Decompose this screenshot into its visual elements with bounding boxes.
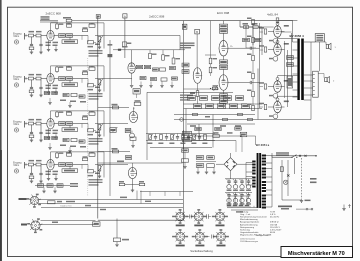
socket 2 wiring (41, 221, 101, 227)
svg-text:Leistung: Leistung (240, 211, 249, 214)
smoothing caps row 1 (225, 179, 252, 191)
mid triode V5a (129, 107, 137, 122)
mains double line (272, 156, 316, 158)
svg-text:Mikro: Mikro (14, 164, 20, 167)
wire B+ rail to node A (72, 20, 125, 22)
tremolo network below channel 4 (35, 183, 78, 193)
crease dashed vertical (87, 58, 89, 196)
svg-text:Sockelbeschaltung: Sockelbeschaltung (190, 249, 213, 253)
corner gnd symbols (342, 205, 350, 211)
tone control row elements (147, 134, 207, 145)
mid wire y163 (98, 162, 183, 164)
netz label (310, 178, 317, 183)
aux socket connector 1 (19, 194, 41, 208)
svg-text:Mikro: Mikro (14, 78, 20, 81)
earth bonding box (113, 219, 129, 247)
OT bottom return wire (304, 42, 311, 100)
EL84 plate buses (281, 32, 291, 107)
mid wire y107.5 (98, 107, 129, 109)
feedback wire from secondary (262, 100, 311, 120)
chassis enclosure rectangle (147, 92, 233, 160)
PT left connection wires (246, 163, 253, 186)
junction box on bus top (96, 15, 100, 19)
pot mid left (110, 127, 118, 133)
heater feed wires (227, 206, 258, 213)
svg-text:A: A (124, 14, 126, 18)
svg-text:Mischabstimmung: Mischabstimmung (240, 218, 258, 221)
output terminal box 1 (315, 34, 324, 42)
mid lower box (117, 156, 132, 162)
mix bus wire ch4 (104, 164, 128, 166)
mains voltage labels (276, 152, 289, 155)
choke and dropper left of bridge (196, 156, 216, 174)
splitter long wire y89 (184, 88, 220, 90)
mix bus wire ch1 to group2 (104, 36, 180, 50)
output pentode EL84 V7 (259, 39, 297, 61)
socket pinout diagram 2 (191, 209, 207, 226)
bridge rectifier GL1 (216, 153, 253, 179)
title block box (281, 247, 353, 258)
output terminal strip 2 (313, 71, 319, 97)
grid resistor network rows (187, 96, 249, 108)
drawing notes (240, 239, 258, 244)
mains earth dashed line (301, 158, 303, 200)
node square B (195, 29, 200, 34)
ground return rectangle (98, 219, 184, 221)
svg-text:Diode 2. frei: Diode 2. frei (61, 206, 72, 208)
phase splitter triode upper (219, 40, 233, 56)
triode stage + network channel 1 (46, 23, 105, 57)
specification text block (240, 211, 282, 238)
bus line x183 (183, 21, 185, 221)
triode stage + network channel 3 (46, 111, 105, 145)
driver cathode parts (190, 83, 199, 104)
eingang text block mid (180, 95, 193, 101)
PT primary windings (left) (252, 161, 255, 188)
svg-text:4xEL 84: 4xEL 84 (267, 12, 278, 16)
label 4xEL84 (267, 12, 278, 16)
bus line x98 (97, 16, 99, 219)
input connector channel 4 (13, 160, 47, 183)
mains switch (291, 155, 316, 158)
mid triode V5b (119, 163, 145, 192)
svg-text:Sicherung: Sicherung (240, 228, 251, 231)
splitter output resistor column (247, 18, 254, 111)
label ECC808 (phase splitter) (217, 11, 230, 15)
input connector channel 3 (13, 119, 47, 142)
channel 2 lower network (44, 92, 86, 108)
aux socket wiring (39, 191, 183, 211)
svg-text:Mikro: Mikro (14, 123, 20, 126)
bus line x125 (124, 21, 126, 58)
ps vertical drops (186, 27, 262, 148)
inter-socket marks (188, 214, 214, 238)
svg-text:11/60 Schrauben: 11/60 Schrauben (240, 239, 255, 241)
svg-text:ECC 808: ECC 808 (217, 11, 230, 15)
input connector channel 1 (13, 31, 47, 54)
socket pinout diagram 3 (212, 209, 228, 226)
tone control row rails (146, 134, 215, 148)
mix bus wire ch3 (104, 123, 128, 125)
svg-text:Tonregler stufe: Tonregler stufe (255, 234, 269, 237)
svg-text:41x10 Hz: 41x10 Hz (270, 217, 279, 219)
row below rails (195, 127, 241, 131)
socket pinout diagram 6 (213, 229, 229, 246)
svg-text:Netzspannung: Netzspannung (240, 226, 255, 229)
PT wires to mains (265, 156, 272, 158)
input connector channel 2 (13, 74, 47, 97)
scanner edge strip left (0, 0, 2, 261)
label 2xECC808 (group 2) (149, 14, 165, 18)
socket caption EL84 (278, 206, 292, 210)
mid cathode box (130, 137, 136, 147)
triode stage + network channel 4 (46, 152, 105, 186)
mix bus wire ch2 (104, 78, 132, 80)
B+ feed boxes left (183, 131, 192, 141)
heater verticals (227, 196, 249, 207)
EL84 grid bus (260, 23, 264, 108)
speaker 2 (318, 74, 335, 83)
node box C on bus (182, 24, 187, 29)
splitter mid stack (220, 56, 228, 75)
drive wire upper to grids (228, 47, 260, 50)
output pentode EL84 V6 (259, 21, 297, 43)
feedback network rails (174, 104, 262, 127)
box right of pot (125, 128, 131, 132)
small circle element mid (130, 131, 135, 138)
node A square (123, 14, 127, 21)
aux socket connector 2 (21, 218, 42, 233)
svg-text:Mikro: Mikro (14, 35, 20, 38)
svg-text:Ausgangsimpedanz: Ausgangsimpedanz (240, 221, 259, 224)
OT primary connection stubs (293, 25, 298, 97)
resistor column above driver (205, 21, 217, 76)
svg-text:0,5/1,25 A T: 0,5/1,25 A T (270, 228, 282, 231)
box on mid bus (122, 42, 131, 47)
socket grid caption (190, 249, 213, 253)
bus component boxes left (182, 63, 189, 73)
svg-text:BV 2051 a: BV 2051 a (256, 143, 270, 147)
second stage amp row 1 (2xECC808 group2) (108, 44, 186, 87)
becher capacitor below stage2 (133, 89, 140, 98)
OT B+ feed (292, 21, 294, 25)
label 2xECC808 (group 1) (46, 12, 62, 16)
svg-text:Mischverstärker M 70: Mischverstärker M 70 (288, 251, 345, 257)
PT secondary windings (right) (262, 155, 266, 209)
OT secondary taps (304, 42, 315, 95)
mid lower wire (98, 148, 130, 153)
svg-text:Aufnahmeleistung: Aufnahmeleistung (240, 223, 258, 226)
EL84 input feed wires (240, 18, 279, 48)
socket pinout diagram 1 (172, 209, 188, 226)
svg-text:2xECC 808: 2xECC 808 (46, 12, 62, 16)
output pentode EL84 V8 (259, 76, 297, 98)
channel 3 lower network (44, 137, 86, 153)
output transformer BV2052 core (297, 39, 303, 101)
drive wire lower to grids (228, 81, 260, 84)
heater run to preamps (140, 192, 193, 197)
HT rail top (125, 20, 293, 22)
plate resistor row top right (240, 21, 262, 34)
triode stage + network channel 2 (46, 66, 105, 100)
phase splitter triode lower (219, 75, 228, 91)
socket pinout diagram 4 (172, 229, 188, 246)
svg-text:160 VA: 160 VA (270, 223, 278, 226)
driver triode left (193, 68, 202, 84)
B+ dropper resistors top-left (40, 16, 72, 22)
bus line x110 (109, 40, 111, 196)
label BV2051 mains transformer (256, 143, 270, 147)
svg-text:11/65 Abmessungen: 11/65 Abmessungen (240, 240, 258, 243)
PT right connection wires (266, 153, 272, 207)
svg-text:Klirrabstimmung Instrument: Klirrabstimmung Instrument (240, 216, 267, 219)
mains transformer BV2051 core (257, 153, 262, 208)
output pentode EL84 V9 (259, 96, 297, 118)
socket pinout diagram 5 (192, 229, 208, 246)
coupling resistor mid (112, 104, 119, 109)
B+ feed wires to amp (192, 132, 256, 152)
svg-text:Gegentaktendstufe: Gegentaktendstufe (240, 231, 259, 234)
title text (288, 251, 345, 257)
svg-text:Geg. - Leit: Geg. - Leit (240, 213, 251, 216)
screen resistor boxes near OT (287, 56, 294, 88)
smoothing caps row 2 (225, 193, 252, 205)
label BV2052/4 output transformer (290, 34, 305, 38)
wire terminal1 to strip2 (319, 42, 321, 71)
splitter lower stack (220, 90, 228, 108)
splitter plate stack (220, 21, 228, 41)
plate resistor above mid triode (134, 100, 141, 109)
mains earth ground (300, 200, 311, 203)
input text block left (180, 43, 195, 49)
heater x marks (296, 208, 313, 210)
small parts right of driver (210, 85, 218, 91)
left column ps parts (182, 130, 189, 168)
speaker 1 (324, 42, 336, 50)
pilot lamp circuit (280, 158, 302, 200)
wire node B down (196, 34, 198, 68)
svg-text:2xECC 808: 2xECC 808 (149, 14, 165, 18)
